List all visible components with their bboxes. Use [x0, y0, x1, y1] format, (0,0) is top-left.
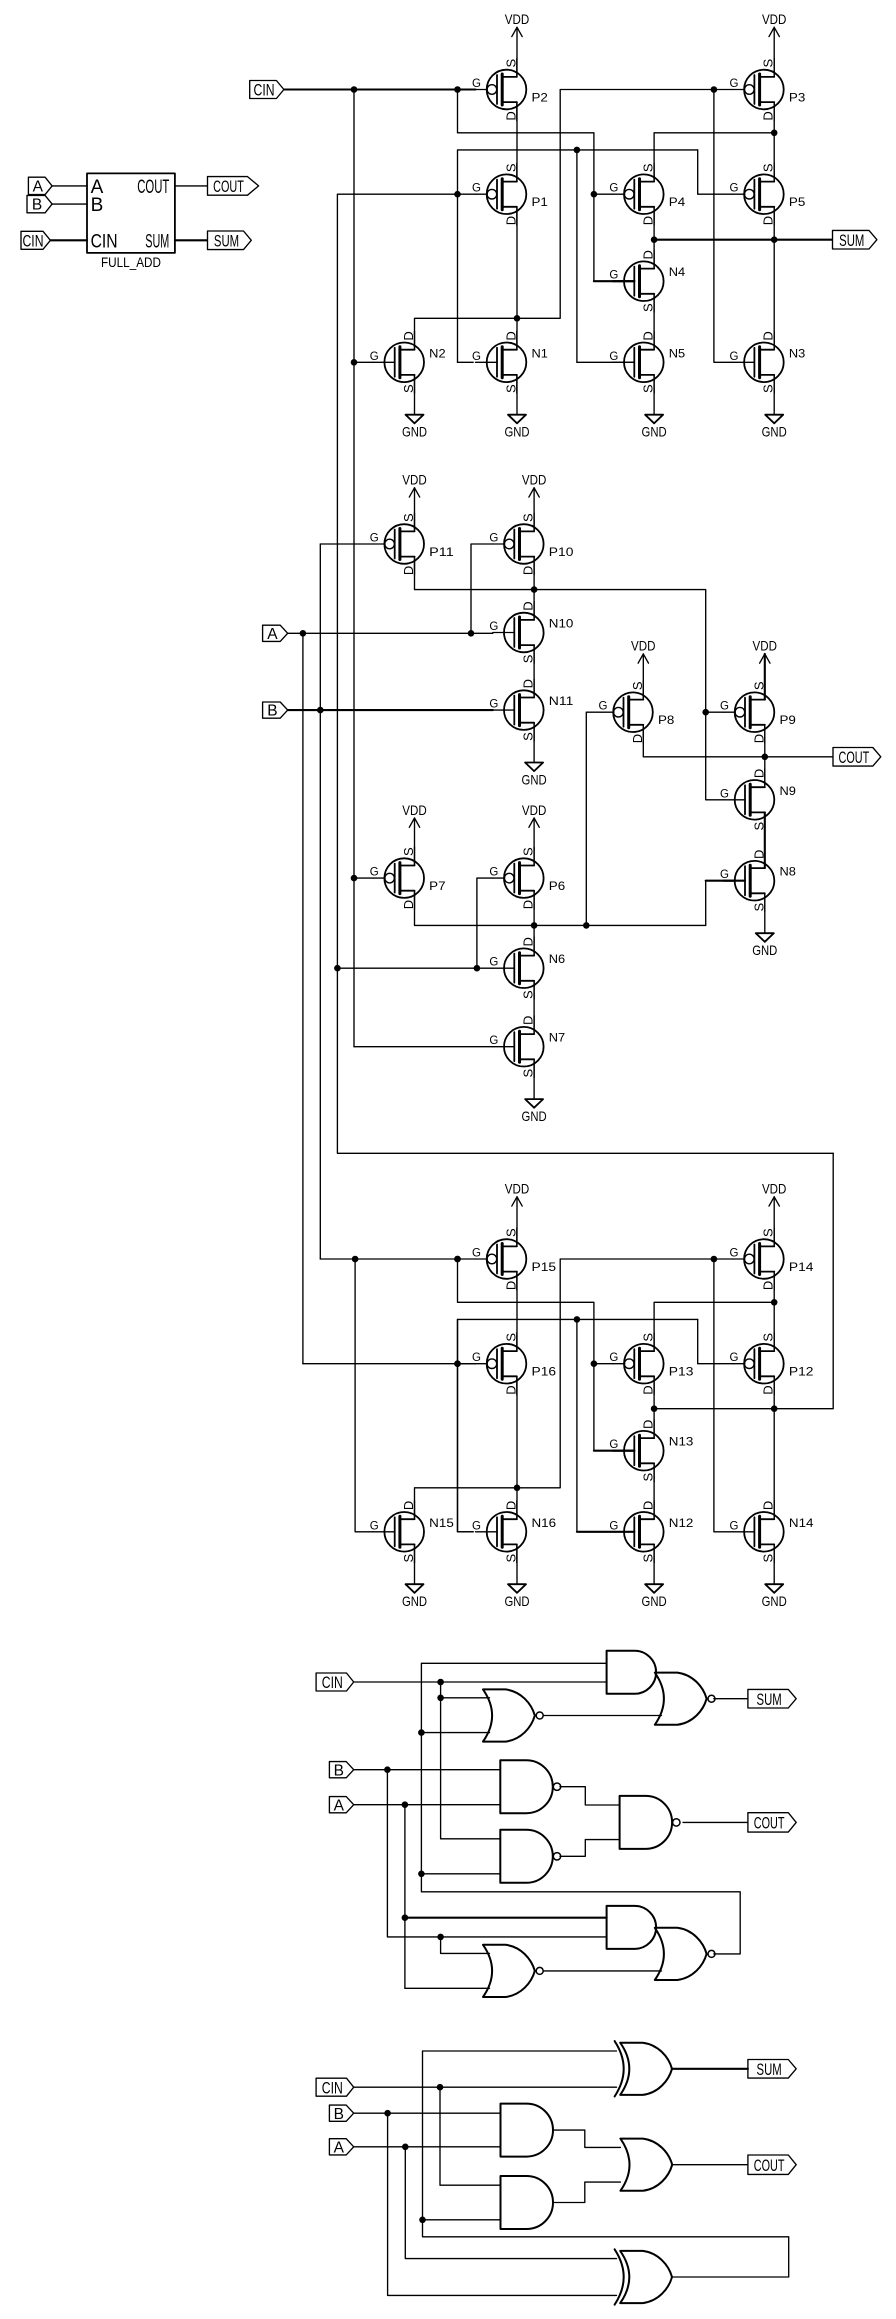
svg-text:N11: N11 [549, 696, 574, 708]
svg-text:COUT: COUT [754, 1814, 785, 1833]
svg-text:D: D [641, 331, 656, 340]
svg-text:G: G [489, 699, 498, 711]
svg-text:D: D [761, 216, 776, 225]
svg-text:N10: N10 [549, 619, 574, 631]
svg-text:D: D [503, 1385, 518, 1394]
svg-text:B: B [91, 195, 104, 216]
svg-text:VDD: VDD [505, 11, 530, 27]
svg-text:VDD: VDD [402, 472, 427, 488]
svg-text:D: D [641, 250, 656, 259]
svg-text:GND: GND [402, 1593, 427, 1609]
svg-text:N15: N15 [429, 1518, 454, 1530]
svg-text:P15: P15 [532, 1262, 557, 1274]
svg-text:GND: GND [642, 1593, 667, 1609]
svg-text:D: D [751, 734, 766, 743]
svg-text:S: S [761, 163, 776, 172]
svg-text:G: G [489, 957, 498, 969]
svg-text:S: S [641, 303, 656, 312]
svg-text:G: G [729, 1520, 738, 1532]
svg-text:D: D [630, 734, 645, 743]
svg-text:D: D [641, 216, 656, 225]
svg-text:G: G [370, 351, 379, 363]
svg-text:S: S [521, 732, 536, 741]
svg-text:VDD: VDD [522, 802, 547, 818]
svg-text:S: S [521, 847, 536, 856]
svg-text:G: G [472, 351, 481, 363]
svg-text:B: B [334, 2106, 344, 2123]
svg-text:S: S [503, 58, 518, 67]
svg-text:FULL_ADD: FULL_ADD [101, 255, 161, 270]
svg-text:SUM: SUM [757, 1690, 782, 1709]
svg-text:P13: P13 [669, 1367, 694, 1379]
svg-text:D: D [761, 1281, 776, 1290]
svg-text:P6: P6 [549, 881, 565, 893]
svg-text:GND: GND [504, 424, 529, 440]
svg-text:P4: P4 [669, 197, 686, 209]
svg-text:S: S [630, 681, 645, 690]
svg-text:G: G [609, 183, 618, 195]
svg-text:D: D [521, 937, 536, 946]
svg-text:S: S [503, 1333, 518, 1342]
svg-text:G: G [489, 533, 498, 545]
svg-text:P11: P11 [429, 547, 454, 559]
svg-text:G: G [370, 533, 379, 545]
svg-text:S: S [401, 384, 416, 393]
svg-text:B: B [267, 703, 277, 720]
svg-text:GND: GND [402, 424, 427, 440]
svg-text:G: G [370, 1520, 379, 1532]
svg-text:S: S [761, 58, 776, 67]
svg-text:G: G [609, 351, 618, 363]
svg-text:P5: P5 [789, 197, 805, 209]
svg-text:S: S [503, 384, 518, 393]
svg-text:N4: N4 [669, 267, 686, 279]
svg-text:N13: N13 [669, 1437, 694, 1449]
svg-text:CIN: CIN [322, 1673, 343, 1692]
svg-text:S: S [751, 902, 766, 911]
svg-text:G: G [609, 270, 618, 282]
svg-text:S: S [641, 163, 656, 172]
svg-text:GND: GND [752, 942, 777, 958]
svg-text:S: S [401, 513, 416, 522]
svg-text:P14: P14 [789, 1262, 814, 1274]
svg-text:A: A [334, 2139, 345, 2156]
svg-text:G: G [599, 701, 608, 713]
svg-text:P16: P16 [532, 1367, 557, 1379]
svg-text:D: D [503, 1501, 518, 1510]
svg-text:CIN: CIN [91, 231, 118, 252]
svg-text:S: S [503, 1228, 518, 1237]
svg-text:VDD: VDD [762, 1181, 787, 1197]
svg-text:G: G [729, 1248, 738, 1260]
svg-text:G: G [472, 1248, 481, 1260]
svg-text:D: D [521, 566, 536, 575]
svg-text:N14: N14 [789, 1518, 814, 1530]
svg-text:VDD: VDD [631, 638, 656, 654]
svg-text:G: G [370, 867, 379, 879]
svg-text:N3: N3 [789, 348, 805, 360]
svg-text:P2: P2 [532, 93, 548, 105]
svg-text:SUM: SUM [214, 232, 239, 251]
svg-text:S: S [761, 1554, 776, 1563]
svg-text:D: D [641, 1420, 656, 1429]
svg-text:GND: GND [762, 424, 787, 440]
svg-text:S: S [641, 1333, 656, 1342]
svg-text:N7: N7 [549, 1033, 565, 1045]
svg-text:COUT: COUT [137, 177, 169, 198]
svg-text:COUT: COUT [839, 748, 870, 767]
svg-text:D: D [641, 1385, 656, 1394]
svg-text:COUT: COUT [213, 177, 244, 196]
svg-text:A: A [334, 1797, 345, 1814]
svg-text:N9: N9 [780, 786, 796, 798]
svg-text:S: S [761, 1228, 776, 1237]
svg-text:N12: N12 [669, 1518, 694, 1530]
svg-text:D: D [521, 679, 536, 688]
svg-text:D: D [401, 566, 416, 575]
svg-text:SUM: SUM [839, 231, 864, 250]
svg-text:G: G [609, 1439, 618, 1451]
svg-text:D: D [401, 1501, 416, 1510]
svg-text:D: D [401, 900, 416, 909]
svg-text:N1: N1 [532, 348, 548, 360]
svg-text:GND: GND [762, 1593, 787, 1609]
svg-text:GND: GND [522, 1108, 547, 1124]
svg-text:P9: P9 [780, 715, 796, 727]
svg-text:G: G [729, 183, 738, 195]
svg-text:CIN: CIN [254, 81, 275, 100]
svg-text:S: S [521, 990, 536, 999]
svg-text:D: D [503, 1281, 518, 1290]
svg-text:S: S [401, 847, 416, 856]
svg-text:N5: N5 [669, 348, 685, 360]
svg-text:D: D [521, 900, 536, 909]
svg-text:B: B [334, 1762, 344, 1779]
svg-text:G: G [609, 1352, 618, 1364]
svg-text:P12: P12 [789, 1367, 814, 1379]
svg-text:D: D [521, 601, 536, 610]
svg-text:S: S [641, 1554, 656, 1563]
svg-text:G: G [472, 183, 481, 195]
svg-text:GND: GND [642, 424, 667, 440]
svg-text:A: A [33, 179, 44, 196]
svg-text:COUT: COUT [754, 2156, 785, 2175]
svg-text:SUM: SUM [757, 2060, 782, 2079]
svg-text:D: D [503, 111, 518, 120]
svg-text:D: D [761, 331, 776, 340]
svg-text:D: D [641, 1501, 656, 1510]
svg-text:G: G [720, 788, 729, 800]
svg-text:S: S [503, 1554, 518, 1563]
svg-text:P8: P8 [658, 715, 674, 727]
svg-text:S: S [641, 1472, 656, 1481]
svg-text:D: D [503, 331, 518, 340]
svg-text:G: G [472, 1352, 481, 1364]
svg-text:D: D [761, 1385, 776, 1394]
svg-text:VDD: VDD [505, 1181, 530, 1197]
svg-text:D: D [761, 111, 776, 120]
svg-text:G: G [489, 1035, 498, 1047]
svg-text:N16: N16 [532, 1518, 557, 1530]
svg-text:S: S [401, 1554, 416, 1563]
svg-text:P3: P3 [789, 93, 805, 105]
svg-text:P7: P7 [429, 881, 445, 893]
svg-text:G: G [489, 867, 498, 879]
svg-text:S: S [521, 654, 536, 663]
svg-text:N8: N8 [780, 867, 796, 879]
svg-text:P1: P1 [532, 197, 548, 209]
svg-text:G: G [609, 1520, 618, 1532]
svg-text:N2: N2 [429, 348, 445, 360]
svg-text:GND: GND [522, 772, 547, 788]
svg-text:S: S [503, 163, 518, 172]
svg-text:G: G [472, 78, 481, 90]
svg-text:G: G [472, 1520, 481, 1532]
svg-text:VDD: VDD [753, 638, 778, 654]
svg-text:G: G [729, 1352, 738, 1364]
svg-text:B: B [32, 197, 42, 214]
svg-text:GND: GND [504, 1593, 529, 1609]
svg-text:D: D [521, 1016, 536, 1025]
svg-text:S: S [641, 384, 656, 393]
svg-text:N6: N6 [549, 954, 565, 966]
svg-text:S: S [761, 384, 776, 393]
svg-text:VDD: VDD [762, 11, 787, 27]
svg-text:S: S [521, 1068, 536, 1077]
svg-text:A: A [267, 626, 278, 643]
svg-text:S: S [521, 513, 536, 522]
svg-text:D: D [503, 216, 518, 225]
svg-text:VDD: VDD [522, 472, 547, 488]
svg-text:G: G [729, 351, 738, 363]
svg-text:CIN: CIN [23, 232, 44, 251]
svg-text:D: D [751, 769, 766, 778]
svg-text:CIN: CIN [322, 2078, 343, 2097]
svg-text:G: G [729, 78, 738, 90]
svg-text:D: D [761, 1501, 776, 1510]
svg-text:VDD: VDD [402, 802, 427, 818]
svg-text:SUM: SUM [145, 231, 169, 252]
svg-text:D: D [401, 331, 416, 340]
svg-text:G: G [720, 869, 729, 881]
svg-text:G: G [720, 701, 729, 713]
svg-text:S: S [761, 1333, 776, 1342]
svg-text:G: G [489, 621, 498, 633]
svg-text:P10: P10 [549, 547, 574, 559]
